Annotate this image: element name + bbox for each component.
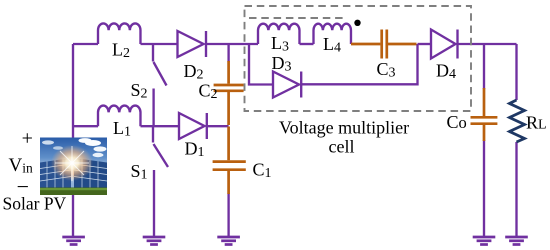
diode D2 xyxy=(178,31,207,57)
svg-text:+: + xyxy=(22,127,33,149)
wire C3 to node orange xyxy=(388,43,417,46)
capacitor Co lower lead xyxy=(483,125,486,141)
switch S2 xyxy=(153,44,167,126)
wire L2 to D2 xyxy=(141,43,178,45)
wire Co bottom lead lower xyxy=(483,140,485,236)
wire left vertical from top rail to ground xyxy=(72,44,74,236)
svg-text:D4: D4 xyxy=(436,61,456,83)
wire D3 cathode to C3-D4 node xyxy=(301,44,417,84)
svg-text:RL: RL xyxy=(526,112,547,132)
diode D3 xyxy=(273,72,301,98)
svg-text:L4: L4 xyxy=(323,34,341,56)
svg-text:Solar PV: Solar PV xyxy=(3,193,67,213)
wire top rail to L2 xyxy=(73,43,98,45)
wire D2 to L3 with junctions xyxy=(206,43,258,45)
svg-text:L2: L2 xyxy=(112,40,130,62)
diode D1 xyxy=(179,113,207,139)
svg-text:D2: D2 xyxy=(184,61,204,83)
svg-text:cell: cell xyxy=(329,137,355,157)
inductor L1 xyxy=(98,106,140,127)
ground under C1 xyxy=(217,237,240,245)
svg-text:Co: Co xyxy=(447,112,467,132)
wire D4 to output corner xyxy=(458,43,517,45)
inductor L3 xyxy=(258,24,299,44)
wire L4 to C3 orange xyxy=(351,43,380,46)
voltage multiplier cell dashed box xyxy=(245,6,472,111)
capacitor C2 lead from rail xyxy=(227,61,230,84)
svg-text:S2: S2 xyxy=(131,80,148,102)
switch S1 xyxy=(153,126,168,236)
wire C3 to D4 xyxy=(418,43,432,45)
svg-text:C1: C1 xyxy=(253,160,272,182)
capacitor C1 lower lead xyxy=(227,171,230,194)
svg-text:L3: L3 xyxy=(271,33,289,55)
coupled inductor dashed line xyxy=(249,17,345,19)
capacitor Co plates xyxy=(471,117,498,123)
wire Co branch upper xyxy=(483,44,485,89)
wire L1 rail xyxy=(73,125,98,127)
capacitor C3 plates xyxy=(382,30,387,59)
solar PV photo xyxy=(40,138,107,196)
inductor L2 xyxy=(98,23,140,44)
wire RL top lead xyxy=(515,44,517,100)
svg-text:Voltage multiplier: Voltage multiplier xyxy=(279,118,409,138)
capacitor Co upper lead xyxy=(483,88,486,116)
svg-text:L1: L1 xyxy=(113,118,131,140)
svg-text:D3: D3 xyxy=(272,53,292,75)
polarity dot xyxy=(354,20,360,26)
wire RL bottom lead xyxy=(515,142,517,236)
capacitor C2 to D1 rail lead xyxy=(227,92,230,125)
diode D4 xyxy=(431,30,458,59)
wire C1 bottom purple lead xyxy=(227,193,229,236)
capacitor C2 plates xyxy=(214,85,244,91)
svg-text:S1: S1 xyxy=(131,161,148,183)
ground under solar PV xyxy=(62,237,85,245)
wire C2 upper purple lead xyxy=(227,44,229,62)
wire node to D3 anode xyxy=(249,44,273,85)
capacitor C1 lead from rail xyxy=(227,127,230,161)
wire D1 to C2 node xyxy=(207,125,229,127)
wire L3 to L4 xyxy=(300,43,314,45)
svg-text:C3: C3 xyxy=(377,59,396,81)
ground under S1 xyxy=(143,237,166,245)
ground under RL xyxy=(505,237,528,245)
svg-text:D1: D1 xyxy=(185,139,205,161)
inductor L4 xyxy=(314,24,351,44)
svg-text:Vin: Vin xyxy=(9,155,33,176)
resistor RL zigzag xyxy=(510,100,525,142)
wire L1 to D1 xyxy=(141,125,180,127)
capacitor C1 plates xyxy=(213,162,246,170)
ground under Co xyxy=(473,237,496,245)
